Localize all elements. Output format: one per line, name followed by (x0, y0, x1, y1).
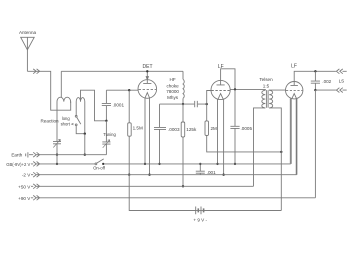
svg-text:125k: 125k (186, 127, 197, 132)
svg-text:LF: LF (218, 64, 224, 70)
tube LF output valve (286, 82, 303, 99)
antenna (21, 37, 35, 71)
svg-text:Tuning: Tuning (103, 132, 116, 137)
terminal GB line (31, 99, 290, 167)
wire LF plate to transformer (230, 88, 265, 91)
capacitor tuning (variable) (102, 121, 110, 155)
capacitor C .001 (196, 164, 205, 175)
svg-text:+50 V: +50 V (18, 184, 31, 189)
svg-text:LF: LF (291, 63, 297, 69)
wire LF grid lead (207, 91, 212, 105)
wire reaction feed from top wire into coil (60, 71, 62, 97)
wire output tube filament legs (291, 98, 297, 174)
wire grid-leak return to battery line (129, 175, 281, 211)
wire junction to earth line (84, 134, 86, 155)
node grid-leak top (128, 89, 130, 91)
wire coil tap bridge to grid condenser junction (81, 90, 107, 121)
wire GB feed down to battery (280, 152, 282, 211)
svg-text:HF: HF (170, 77, 176, 82)
svg-text:long: long (62, 116, 71, 121)
svg-text:1.5M: 1.5M (133, 125, 143, 130)
LS chevrons top (336, 69, 342, 74)
terminal -2V line (31, 99, 296, 178)
svg-text:GB(-9V)+2 V: GB(-9V)+2 V (6, 162, 30, 167)
LS chevrons bottom (336, 88, 342, 93)
node DET top cap (146, 70, 148, 72)
svg-text:choke: choke (166, 84, 179, 89)
transformer Telsen 1:5 (254, 90, 286, 186)
svg-text:.002: .002 (322, 79, 331, 84)
svg-text:+90 V: +90 V (18, 196, 31, 201)
terminal +50V line (31, 184, 254, 189)
wire DET grid lead (106, 89, 138, 91)
aerial input chevrons (33, 69, 39, 74)
svg-text:Telsen: Telsen (259, 77, 273, 82)
wire reaction leg to GB line (56, 155, 58, 164)
long-short switch (72, 115, 85, 133)
capacitor C .0003 (154, 104, 166, 164)
svg-text:Mhys: Mhys (167, 95, 179, 100)
node coupling to LF grid (206, 103, 208, 105)
capacitor C-grid .0001 (102, 90, 111, 121)
coil L1 aerial/grid winding (57, 97, 71, 141)
top wire plate/reaction bus (61, 70, 183, 72)
terminal +90V line (31, 195, 315, 200)
svg-text:Antenna: Antenna (19, 30, 37, 35)
wire LF plate loop (221, 69, 235, 90)
node LS lower (314, 89, 316, 91)
svg-text:2M: 2M (211, 126, 218, 131)
resistor R 125k (181, 104, 185, 186)
battery GB 9V (129, 207, 281, 215)
svg-text:DET: DET (143, 64, 153, 70)
svg-text:+ 9 V -: + 9 V - (193, 218, 207, 223)
resistor R 2M (205, 104, 281, 152)
svg-text:.0005: .0005 (241, 126, 253, 131)
svg-text:LS: LS (339, 78, 345, 83)
capacitor C .0005 (230, 89, 239, 163)
node grid condenser junction (105, 120, 107, 122)
inductor HF choke (183, 71, 184, 104)
tube DET valve (138, 71, 157, 98)
svg-text:78000: 78000 (166, 89, 179, 94)
wire detector output node (160, 103, 207, 105)
capacitor C coupling (195, 101, 198, 107)
svg-text:On-off: On-off (93, 165, 106, 170)
terminal Earth line (26, 152, 107, 157)
wire LS feed to +90V line (314, 90, 316, 198)
capacitor reaction (variable) (53, 139, 61, 154)
node GB feed junction (280, 151, 282, 153)
resistor R grid-leak 1.5M (128, 90, 132, 175)
switch on-off (95, 159, 104, 165)
svg-text:short: short (61, 122, 71, 127)
svg-text:.0003: .0003 (168, 127, 180, 132)
svg-text:-2 V: -2 V (22, 173, 31, 178)
coil L2 tuned winding (76, 98, 85, 134)
wire LF filament legs (218, 99, 224, 175)
wire antenna lead-in (27, 71, 70, 110)
wire DET filament legs (145, 98, 150, 175)
wire output plate to LS (294, 71, 347, 81)
svg-text:.001: .001 (207, 170, 216, 175)
svg-text:Reaction: Reaction (40, 118, 59, 123)
node coil/switch junction (84, 133, 86, 135)
capacitor C .002 across LS (311, 71, 320, 90)
svg-text:.0001: .0001 (113, 102, 125, 107)
svg-text:Earth: Earth (11, 153, 22, 158)
node choke bottom (182, 103, 184, 105)
tube LF first valve (211, 80, 230, 99)
svg-text:1:5: 1:5 (263, 84, 270, 89)
wire LS lower line (315, 89, 346, 91)
